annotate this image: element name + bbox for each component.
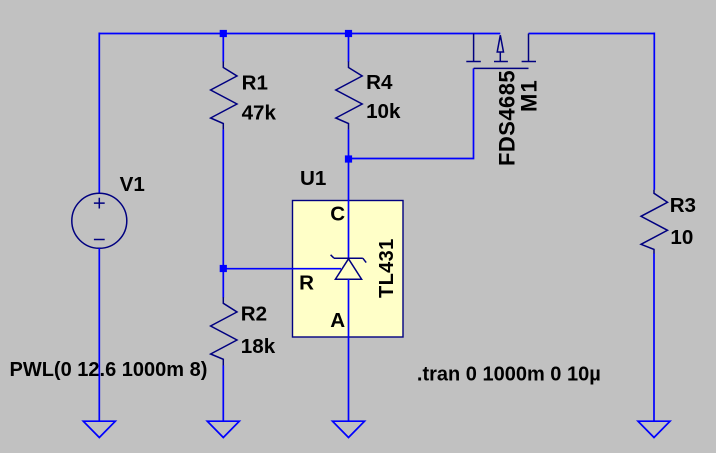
wire R4 top lead [348, 34, 350, 62]
wire V1 top [98, 33, 100, 194]
wire C pin (node to TL431 cathode) [348, 159, 350, 259]
wire gate node to M1 gate [349, 68, 474, 158]
drain contact bar [522, 61, 536, 63]
svg-text:V1: V1 [120, 173, 145, 196]
resistor R1 [211, 62, 237, 130]
svg-text:10: 10 [670, 226, 693, 249]
junction top rail R4 [345, 30, 352, 37]
wire top rail left [99, 33, 500, 35]
svg-text:R2: R2 [241, 303, 267, 326]
source contact bar [466, 61, 481, 63]
resistor R2 [211, 297, 237, 365]
wire top rail right [529, 33, 655, 35]
svg-text:R: R [299, 272, 314, 295]
source stub [473, 34, 475, 62]
wire R3 bottom [653, 254, 655, 422]
node junction R1/R2/R wire [220, 265, 227, 272]
voltage source V1 [72, 193, 127, 248]
gate bar [474, 67, 529, 69]
wire V1 bottom [98, 248, 100, 421]
MOSFET M1 [466, 34, 536, 69]
svg-text:A: A [330, 309, 345, 332]
svg-text:U1: U1 [300, 167, 326, 190]
wire R4 bottom to gate node [348, 130, 350, 159]
resistor R3 [641, 190, 668, 254]
ground (TL431 A) [333, 421, 365, 437]
wire A pin to ground [348, 279, 350, 421]
ground (V1) [83, 421, 115, 437]
wire R1 top lead [222, 34, 224, 62]
svg-text:C: C [330, 202, 345, 225]
svg-text:10k: 10k [366, 100, 401, 123]
wire R2 bottom [222, 365, 224, 421]
drain stub [528, 34, 530, 62]
svg-text:PWL(0 12.6 1000m 8): PWL(0 12.6 1000m 8) [10, 359, 208, 381]
svg-text:47k: 47k [242, 102, 277, 125]
svg-text:R3: R3 [670, 194, 696, 217]
ground (R3) [638, 421, 670, 437]
wire R3 top [653, 33, 655, 190]
body arrow [497, 35, 503, 52]
svg-text:M1: M1 [517, 79, 542, 112]
junction top rail R1 [220, 30, 227, 37]
wire R1 bottom to node [222, 130, 224, 269]
svg-text:TL431: TL431 [376, 238, 398, 298]
body contact bar [494, 61, 508, 63]
TL431 zener symbol [331, 255, 367, 279]
wire R2 top lead [222, 269, 224, 298]
TL431 body box U1 [293, 201, 404, 338]
svg-text:R1: R1 [242, 71, 268, 94]
resistor R4 [336, 62, 362, 130]
svg-text:.tran 0 1000m 0 10µ: .tran 0 1000m 0 10µ [417, 364, 601, 386]
wire node to TL431 R pin [223, 268, 341, 270]
svg-text:18k: 18k [241, 335, 276, 358]
junction gate node [345, 155, 352, 162]
ground (R2) [207, 421, 239, 437]
svg-text:R4: R4 [366, 71, 393, 94]
